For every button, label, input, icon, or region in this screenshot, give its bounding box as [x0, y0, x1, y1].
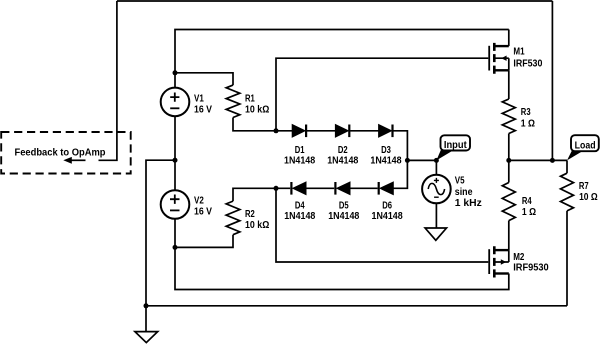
node supply midpoint	[173, 158, 178, 163]
V2 minus sign	[170, 209, 180, 211]
wire V5 top lead	[435, 160, 437, 174]
svg-text:Feedback to OpAmp: Feedback to OpAmp	[15, 148, 106, 159]
svg-text:10 kΩ: 10 kΩ	[245, 105, 269, 116]
wire lower diode row segments	[276, 160, 407, 188]
wire M1 gate net	[276, 58, 488, 131]
diode D2 triangle	[335, 125, 348, 138]
svg-text:1 kHz: 1 kHz	[455, 198, 482, 209]
M2 body arrowhead	[501, 259, 506, 264]
node M1 gate / R1 / D1 junction	[274, 128, 279, 133]
svg-text:R3: R3	[521, 107, 531, 118]
svg-text:V5: V5	[455, 176, 465, 187]
M2 drain stub	[494, 272, 509, 274]
mosfet M2 gate bar	[488, 249, 490, 274]
svg-text:IRF9530: IRF9530	[513, 263, 549, 274]
wire V1 top lead	[174, 73, 176, 88]
wire V2 top lead	[174, 160, 176, 190]
diode D6 cathode bar	[378, 182, 380, 195]
svg-text:R7: R7	[579, 181, 589, 192]
wire output node row	[509, 159, 567, 161]
wire R2 top branch	[233, 188, 276, 201]
svg-text:1N4148: 1N4148	[284, 155, 316, 166]
resistor R7 zigzag	[561, 173, 574, 211]
annotation arrowhead	[63, 157, 72, 164]
svg-text:R1: R1	[245, 93, 255, 104]
diode D3 triangle	[379, 125, 392, 138]
svg-text:sine: sine	[455, 187, 473, 198]
mosfet M1 gate bar	[488, 46, 490, 71]
source V5 circle	[422, 175, 451, 204]
annotation dashed box	[1, 132, 131, 174]
wire midpoint to ground rail	[146, 160, 175, 306]
svg-text:1N4148: 1N4148	[370, 155, 402, 166]
wire R1 top branch	[175, 73, 233, 85]
M2 body stub with arrow	[494, 250, 509, 262]
diode D5 cathode bar	[334, 182, 336, 195]
svg-text:1N4148: 1N4148	[327, 155, 359, 166]
svg-text:M1: M1	[513, 47, 525, 58]
resistor R3 zigzag	[502, 99, 515, 134]
M2 channel segments	[493, 246, 496, 277]
svg-text:R2: R2	[245, 209, 255, 220]
node diode ladder mid junction	[405, 158, 410, 163]
node V2 bottom junction	[173, 245, 178, 250]
resistor R4 zigzag	[502, 183, 515, 221]
svg-text:V2: V2	[194, 196, 204, 207]
flag Load pointer	[567, 151, 582, 161]
M1 source stub	[494, 69, 509, 71]
node ground rail junction	[144, 303, 149, 308]
M1 channel segments	[493, 43, 496, 74]
M1 body arrowhead	[501, 56, 506, 61]
svg-text:1N4148: 1N4148	[328, 211, 360, 222]
svg-text:1 Ω: 1 Ω	[521, 118, 535, 129]
svg-text:Input: Input	[444, 140, 467, 151]
V5 sine wave	[428, 183, 444, 194]
node V1 top junction	[173, 70, 178, 75]
voltage source V2 circle	[161, 190, 190, 219]
diode D5 triangle	[337, 182, 350, 195]
V1 minus sign	[170, 107, 179, 109]
node output feedback junction	[550, 158, 555, 163]
wire -16V rail to M2 drain	[175, 247, 509, 289]
wire R7 top lead	[566, 160, 568, 173]
node Input anchor	[434, 158, 439, 163]
wire R4 top lead	[508, 160, 510, 182]
M1 body stub with arrow	[494, 58, 509, 70]
wire R2 bottom to V2 minus	[175, 235, 233, 248]
V5 plus sign	[434, 178, 439, 183]
resistor R1 zigzag	[226, 85, 240, 117]
wire input node	[407, 159, 436, 161]
svg-text:1N4148: 1N4148	[372, 211, 404, 222]
wire +16V rail V1 top to M1 drain	[175, 30, 509, 73]
diode D2 cathode bar	[348, 125, 350, 138]
diode D3 cathode bar	[391, 125, 393, 138]
svg-text:1N4148: 1N4148	[284, 211, 316, 222]
wire upper diode row segments	[276, 131, 407, 161]
V2 plus sign	[170, 195, 180, 204]
svg-text:10 kΩ: 10 kΩ	[245, 220, 269, 231]
wire top feedback-output rail	[117, 0, 553, 2]
svg-text:V1: V1	[194, 93, 204, 104]
wire R1 bottom to node	[233, 118, 276, 131]
svg-text:IRF530: IRF530	[513, 58, 542, 69]
diode D4 triangle	[293, 182, 306, 195]
wire output vertical to load node	[551, 1, 553, 160]
svg-text:16 V: 16 V	[194, 207, 212, 218]
svg-text:R4: R4	[522, 196, 532, 207]
ground V5	[425, 228, 446, 240]
wire M2 gate net	[276, 188, 488, 262]
svg-text:10 Ω: 10 Ω	[579, 192, 598, 203]
wire feedback vertical drop	[99, 1, 117, 160]
diode D6 triangle	[380, 182, 393, 195]
flag Input box	[441, 135, 471, 150]
wire V1 bottom to midpoint	[174, 116, 176, 160]
diode D1 cathode bar	[305, 125, 307, 138]
diode D4 cathode bar	[290, 182, 292, 195]
M2 source stub	[494, 249, 509, 251]
svg-text:M2: M2	[513, 252, 525, 263]
wire V5 bottom to ground	[435, 203, 437, 228]
wire R4 bottom to M2 source	[508, 221, 510, 251]
ground main	[135, 332, 158, 343]
svg-text:16 V: 16 V	[194, 105, 212, 116]
node output R3-R4 junction	[506, 158, 511, 163]
wire R3 bottom lead	[508, 134, 510, 161]
flag Input pointer	[436, 150, 452, 161]
wire bottom ground rail	[146, 305, 567, 307]
M1 drain stub	[494, 45, 509, 47]
annotation arrow line	[71, 159, 86, 161]
flag Load box	[571, 135, 599, 151]
V5 minus sign	[434, 196, 439, 198]
wire M1 source to R3	[508, 70, 510, 99]
svg-text:Load: Load	[575, 141, 596, 152]
voltage source V1 circle	[161, 88, 190, 117]
node M2 gate / R2 / D4 junction	[274, 186, 279, 191]
wire R7 bottom lead	[566, 211, 568, 306]
resistor R2 zigzag	[226, 201, 240, 235]
wire V2 bottom lead	[174, 219, 176, 248]
diode D1 triangle	[292, 125, 305, 138]
svg-text:1 Ω: 1 Ω	[522, 207, 536, 218]
wire ground lead below rail	[145, 306, 147, 332]
M1 drain vertical	[508, 30, 510, 47]
V1 plus sign	[170, 93, 179, 102]
